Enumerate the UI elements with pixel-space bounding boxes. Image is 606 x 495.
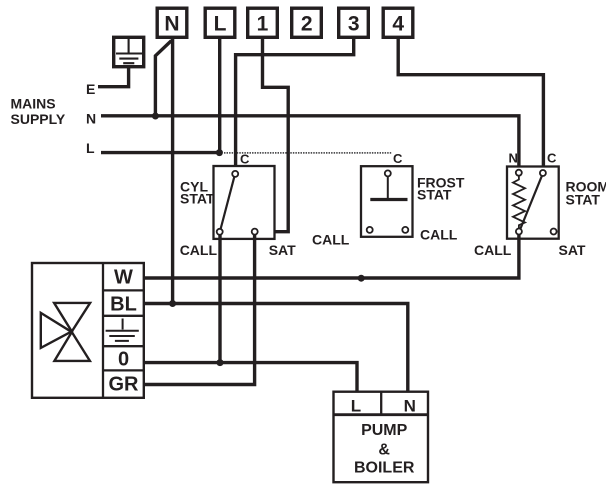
junction dot L stem on L line [216, 149, 223, 156]
svg-text:N: N [404, 397, 416, 416]
frost stat contact stem [387, 177, 389, 199]
valve earth terminal symbol [106, 319, 139, 341]
valve icon left triangle [41, 313, 71, 348]
room stat SAT terminal circle [551, 229, 557, 235]
wire terminal 1 to cyl stat SAT [258, 39, 288, 232]
wire terminal 4 to room stat C [398, 39, 543, 170]
svg-text:4: 4 [392, 13, 404, 36]
svg-text:N: N [164, 13, 179, 36]
junction dot CALL wire on 0 line [217, 359, 224, 366]
terminal 1 box [248, 8, 278, 37]
svg-text:CALL: CALL [420, 226, 458, 242]
room stat box [507, 167, 559, 239]
wire N box diagonal branch to N line [155, 41, 171, 116]
pump and boiler box [334, 392, 429, 483]
svg-text:C: C [393, 151, 403, 166]
valve terminal column divider [102, 263, 104, 398]
svg-text:STAT: STAT [566, 191, 601, 207]
svg-text:L: L [86, 140, 95, 156]
svg-text:2: 2 [301, 13, 313, 36]
valve icon bottom triangle [54, 332, 90, 361]
svg-text:CALL: CALL [180, 242, 218, 258]
valve outer box [32, 263, 144, 398]
svg-text:BOILER: BOILER [354, 459, 415, 476]
wire N supply line to room stat N [101, 116, 519, 170]
svg-text:L: L [351, 397, 361, 416]
room stat C terminal circle [540, 170, 546, 176]
cyl stat switch blade [221, 177, 235, 229]
wire 0 line to pump L [144, 363, 357, 392]
svg-text:SUPPLY: SUPPLY [11, 111, 66, 127]
wire W line to room stat CALL [144, 235, 519, 278]
svg-text:C: C [240, 151, 250, 166]
svg-text:SAT: SAT [559, 242, 586, 258]
room stat CALL terminal circle [516, 229, 522, 235]
junction dot N stem on BL line [169, 300, 176, 307]
terminal 3 box [339, 8, 369, 37]
frost stat box [361, 166, 413, 237]
wire L box stem to L line [218, 39, 221, 153]
svg-text:E: E [86, 81, 95, 97]
wire cyl stat SAT down to GR line [144, 235, 255, 385]
room stat switch blade [520, 176, 542, 229]
wire terminal 3 to cyl stat C [236, 39, 354, 171]
terminal 2 box [292, 8, 322, 37]
valve icon top triangle [54, 303, 90, 332]
cyl stat CALL terminal circle [217, 229, 223, 235]
pump terminal divider [380, 392, 382, 415]
svg-text:C: C [547, 151, 557, 166]
terminal L box [205, 8, 235, 37]
frost stat C terminal circle [385, 170, 391, 176]
cyl stat SAT terminal circle [252, 229, 258, 235]
svg-text:STAT: STAT [180, 191, 215, 207]
cyl stat box [214, 166, 275, 239]
svg-text:MAINS: MAINS [11, 96, 56, 112]
cyl stat C terminal circle [232, 171, 238, 177]
svg-text:BL: BL [110, 294, 137, 316]
earth symbol box [114, 37, 144, 66]
svg-text:3: 3 [348, 13, 360, 36]
frost stat left terminal circle [367, 227, 373, 233]
svg-text:GR: GR [109, 374, 140, 396]
svg-text:1: 1 [257, 13, 269, 36]
svg-text:W: W [114, 267, 133, 289]
wire N box stem down to BL line [171, 39, 174, 304]
room stat resistor [513, 176, 525, 229]
svg-text:&: & [378, 441, 390, 458]
svg-text:N: N [509, 151, 518, 166]
svg-text:N: N [86, 111, 96, 127]
frost stat right terminal circle [402, 227, 408, 233]
terminal 4 box [383, 8, 413, 37]
wire L supply line [101, 151, 219, 154]
svg-text:0: 0 [118, 348, 129, 370]
frost stat contact bar [370, 198, 407, 201]
svg-text:CALL: CALL [312, 232, 350, 248]
valve cell borders [103, 290, 144, 370]
svg-text:STAT: STAT [417, 187, 452, 203]
wire cyl stat CALL down to 0 line [218, 235, 221, 363]
wire earth box to E [98, 67, 129, 87]
wire BL line to pump N [144, 304, 408, 392]
svg-text:CALL: CALL [474, 242, 512, 258]
svg-text:L: L [214, 13, 227, 36]
junction dot N branch on N line [152, 113, 159, 120]
junction dot on W line [358, 275, 365, 282]
svg-text:SAT: SAT [269, 242, 296, 258]
pump terminal strip bottom line [334, 413, 429, 416]
room stat N terminal circle [516, 170, 522, 176]
terminal N box [157, 8, 187, 37]
svg-text:PUMP: PUMP [361, 422, 408, 439]
wire dotted L to frost stat C [224, 152, 391, 154]
